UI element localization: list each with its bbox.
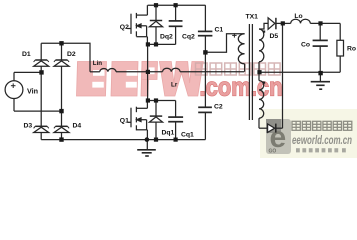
svg-text:Ro: Ro (347, 45, 356, 52)
wire mid rail (116, 71, 163, 73)
svg-text:eeworld.com.cn: eeworld.com.cn (292, 133, 352, 147)
svg-text:Lo: Lo (294, 13, 302, 20)
capacitor Cq1 (168, 101, 183, 140)
watermark EEPW W (159, 62, 203, 97)
diode D2 (54, 60, 69, 66)
diode D6 (268, 124, 283, 133)
wire Q2 source bus (148, 44, 176, 71)
watermark .com.cn (200, 72, 283, 102)
transformer core (249, 24, 252, 120)
logo chinese title (292, 121, 352, 130)
source Vin (5, 81, 23, 99)
transistor Q1 (127, 72, 147, 140)
capacitor C2 (198, 107, 212, 139)
node Q1 source rail (145, 137, 150, 142)
transformer secondary bottom (259, 81, 268, 129)
node dots (39, 3, 323, 142)
svg-text:D3: D3 (24, 123, 33, 130)
svg-text:Dq2: Dq2 (160, 34, 173, 41)
svg-text:D5: D5 (270, 33, 279, 40)
node top rail Dq2 (154, 3, 158, 7)
transformer secondary top (259, 23, 268, 80)
svg-text:Cq1: Cq1 (181, 132, 194, 139)
svg-text:Q2: Q2 (120, 24, 129, 31)
logo slogan (296, 148, 346, 152)
node C1 tap (203, 50, 207, 54)
svg-text:D1: D1 (22, 51, 31, 58)
node Dq1 rail (154, 138, 158, 142)
node Dq1 top (154, 98, 158, 102)
node secondary center tap (257, 70, 261, 74)
wire Q1 drain bus (148, 100, 176, 102)
capacitor C1 (198, 5, 213, 107)
node top rail Cq2 (174, 3, 178, 7)
svg-text:C2: C2 (214, 103, 223, 110)
logo background (260, 109, 357, 158)
svg-text:.com.cn: .com.cn (200, 72, 283, 102)
svg-text:Lr: Lr (171, 82, 178, 89)
watermark red chinese text (196, 63, 281, 75)
svg-text:Co: Co (301, 41, 310, 48)
svg-text:Q1: Q1 (120, 118, 129, 125)
wire D1-D3 column (40, 43, 42, 139)
svg-text:D2: D2 (67, 51, 76, 58)
node Cq1 rail (174, 138, 178, 142)
node Co bottom / ground (318, 71, 322, 75)
svg-text:Dq1: Dq1 (162, 130, 175, 137)
node Q2 source (146, 42, 150, 46)
svg-text:Vin: Vin (27, 86, 38, 95)
wire D5-D6 link (282, 23, 284, 128)
node Dq2 bottom (154, 42, 158, 46)
resistor Ro (337, 23, 344, 72)
diode Dq1 (149, 101, 162, 140)
wire output top rail (283, 22, 291, 24)
ground left (137, 140, 156, 156)
ground right (311, 72, 330, 89)
svg-text:TX1: TX1 (246, 14, 259, 21)
diode D4 (54, 126, 69, 132)
logo badge (266, 119, 291, 155)
svg-text:GO: GO (269, 149, 277, 155)
capacitor Co (313, 23, 328, 72)
svg-text:D4: D4 (73, 123, 82, 130)
transformer TX1 primary (232, 33, 244, 72)
node top-left rail / D2 (59, 41, 63, 45)
wire output bottom rail (259, 71, 340, 73)
inductor Lo (291, 19, 311, 23)
node mid rail Q column (146, 70, 150, 74)
diode D5 (268, 18, 282, 30)
diode Dq2 (149, 5, 162, 44)
node D5 cathode (281, 21, 285, 25)
wire top rail (148, 4, 206, 6)
node Vin+ / D1 column (39, 70, 43, 74)
wire output top rail right (310, 22, 340, 24)
svg-text:Cq2: Cq2 (182, 34, 195, 41)
wire mid rail right (180, 71, 244, 73)
node Q1 drain (146, 98, 150, 102)
diode D1 (34, 60, 49, 66)
svg-text:Lin: Lin (93, 60, 102, 67)
node D4 bottom rail (59, 137, 63, 141)
capacitor Cq2 (169, 5, 183, 44)
transistor Q2 (127, 5, 147, 44)
logo eeworld text (292, 133, 352, 147)
node Vin- / D2 column (59, 109, 63, 113)
wire D2-D4 column (61, 43, 63, 139)
wire top-left rail (41, 43, 90, 72)
wire Vin top (14, 72, 41, 80)
wire primary top link (205, 34, 244, 53)
diode D3 (34, 126, 49, 132)
wire bottom rail (41, 139, 205, 141)
inductor Lr (163, 68, 181, 72)
inductor Lin (90, 69, 116, 72)
wire Vin bottom (14, 99, 62, 112)
watermark EEPW (77, 62, 158, 97)
node Co top (318, 21, 322, 25)
svg-text:C1: C1 (215, 27, 224, 34)
